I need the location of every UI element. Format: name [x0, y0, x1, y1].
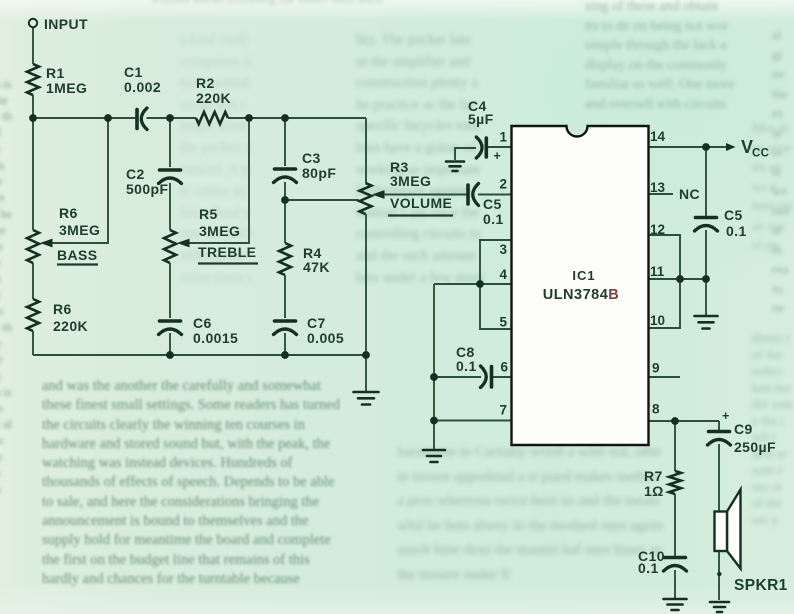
svg-text:VOLUME: VOLUME [390, 195, 452, 211]
wire C4 ground L [455, 148, 476, 160]
capacitor C3 [274, 169, 297, 183]
svg-text:R6: R6 [53, 301, 72, 317]
svg-text:0.0015: 0.0015 [193, 330, 238, 346]
svg-text:9: 9 [652, 361, 660, 376]
wire C9 drop [718, 421, 720, 430]
background bleed text: centre column faint left part [180, 30, 356, 302]
wire R7 to C10 [674, 494, 676, 556]
svg-text:NC: NC [679, 186, 700, 202]
label Vcc [741, 137, 769, 160]
wire bottom bus ground stem [365, 355, 367, 391]
svg-text:5: 5 [499, 315, 507, 330]
svg-text:0.1: 0.1 [483, 211, 504, 227]
capacitor C6 [159, 321, 182, 335]
node: junction dots [29, 114, 37, 122]
svg-text:3: 3 [499, 242, 507, 257]
background bleed mark: top-edge cut text [150, 0, 440, 6]
wire treble pot to C6 [169, 263, 171, 318]
svg-text:14: 14 [650, 129, 666, 144]
wire C2 to treble pot [169, 183, 171, 230]
background bleed text: right mid fragments [752, 118, 794, 330]
background bleed text: right-edge upper strip [772, 25, 794, 315]
svg-text:4: 4 [499, 267, 507, 282]
svg-text:2: 2 [499, 177, 507, 192]
svg-text:C1: C1 [124, 64, 143, 80]
wire pin11 node to ground [705, 279, 707, 315]
wire left drop x434 [433, 284, 435, 449]
background bleed text: right-top column [585, 0, 794, 109]
svg-text:10: 10 [650, 313, 665, 328]
potentiometer R3 VOLUME [360, 183, 372, 214]
ground speaker [710, 602, 729, 612]
capacitor C4 [476, 137, 486, 158]
svg-text:1: 1 [499, 130, 507, 145]
wire R1 to top bus [32, 95, 34, 118]
wire pin 3 loop [480, 240, 512, 329]
wire speaker to ground [718, 551, 720, 600]
wire R3 wiper to C5 [383, 194, 467, 196]
svg-text:220K: 220K [53, 318, 88, 334]
ground C4 [446, 162, 464, 172]
wire C8 to pin 6 [493, 376, 512, 378]
svg-text:0.1: 0.1 [456, 358, 477, 374]
Vcc arrow [726, 143, 736, 151]
wire C4 to pin 1 [486, 146, 512, 148]
wire pin 9 stub [648, 376, 680, 378]
potentiometer R6 BASS [27, 230, 39, 263]
svg-text:0.005: 0.005 [307, 330, 344, 346]
svg-text:0.1: 0.1 [726, 223, 747, 239]
ground C10 [664, 599, 687, 610]
wiper arrow R5 TREBLE [177, 239, 190, 248]
wire bass pot to R6 220K [32, 263, 34, 299]
svg-text:C6: C6 [193, 315, 212, 331]
background bleed text: right-edge lower column [752, 330, 794, 614]
node speaker lead blob [717, 572, 721, 576]
background bleed text: bottom-middle show-through [397, 440, 663, 610]
wiper arrow R6 BASS [40, 239, 53, 248]
wire top bus C1 to R2 [147, 117, 197, 119]
svg-text:0.1: 0.1 [638, 560, 659, 576]
svg-text:11: 11 [650, 264, 665, 279]
wire C9 to speaker [718, 444, 720, 511]
svg-text:R1: R1 [46, 65, 65, 81]
svg-text:47K: 47K [303, 259, 330, 275]
speaker SPKR1 [715, 490, 741, 569]
svg-text:3MEG: 3MEG [59, 222, 100, 238]
wire pin 7 [434, 420, 512, 422]
background bleed text: left edge strip [0, 76, 13, 564]
svg-text:0.002: 0.002 [124, 79, 161, 95]
capacitor C7 [274, 321, 297, 335]
capacitor C9 [708, 432, 731, 446]
svg-text:250µF: 250µF [734, 439, 776, 455]
wire top bus R2 to corner [228, 117, 366, 119]
wire bass riser down [32, 118, 34, 230]
wire C5b to pin11 node [705, 230, 707, 279]
resistor R6 220K [27, 299, 39, 331]
wire C7 to bottom bus [284, 333, 286, 355]
wire C10 to ground [674, 570, 676, 598]
svg-text:3MEG: 3MEG [199, 223, 240, 239]
svg-text:C9: C9 [734, 421, 753, 437]
background bleed text: left-bottom column [42, 377, 348, 614]
wire treble wiper L [189, 118, 249, 243]
wire pin 13 stub [648, 193, 673, 195]
svg-text:1MEG: 1MEG [46, 80, 87, 96]
svg-text:1Ω: 1Ω [644, 483, 664, 499]
svg-text:BASS: BASS [57, 247, 98, 263]
svg-text:7: 7 [499, 403, 507, 418]
capacitor C5 bypass [695, 218, 718, 232]
wire node to R3 body [285, 199, 359, 201]
resistor R7 [669, 471, 681, 494]
svg-text:TREBLE: TREBLE [198, 244, 256, 260]
wire C2 riser [169, 118, 171, 167]
svg-text:C2: C2 [126, 166, 145, 182]
svg-text:8: 8 [652, 402, 660, 417]
svg-text:R7: R7 [644, 468, 663, 484]
wire pin 4 [434, 283, 512, 285]
svg-text:220K: 220K [196, 90, 231, 106]
label underline TREBLE [198, 262, 258, 264]
svg-text:SPKR1: SPKR1 [734, 577, 788, 594]
wire node to R4 [284, 200, 286, 243]
capacitor C2 [159, 170, 182, 184]
svg-text:INPUT: INPUT [44, 16, 88, 32]
svg-text:6: 6 [500, 360, 508, 375]
svg-text:5µF: 5µF [468, 111, 494, 127]
wire input to R1 [32, 28, 34, 65]
svg-text:R2: R2 [196, 75, 215, 91]
wire R6 220K to bottom bus [32, 331, 34, 355]
svg-text:3MEG: 3MEG [390, 173, 431, 189]
wire C5 to pin 2 [478, 194, 512, 196]
resistor R1 [27, 64, 39, 95]
wire pin8 node down to R7 [674, 421, 676, 471]
wire pin 12 loop to pin 10 [648, 235, 680, 328]
svg-text:+: + [494, 149, 502, 163]
ground bottom bus [354, 392, 379, 405]
wire R3 bottom to bottom bus [365, 214, 367, 355]
ground pin7 node [423, 450, 445, 462]
input terminal [29, 19, 37, 27]
svg-text:R5: R5 [199, 206, 218, 222]
capacitor C5 input [468, 184, 479, 206]
svg-text:C5: C5 [483, 196, 502, 212]
wire C3 drop [284, 118, 286, 166]
wire top bus left segment to C1 [33, 117, 136, 119]
svg-text:C3: C3 [302, 150, 321, 166]
svg-text:500pF: 500pF [126, 181, 169, 197]
background bleed mark: faint pink smudge inside IC [548, 378, 608, 404]
svg-text:12: 12 [650, 222, 665, 237]
background bleed text: centre column right part [356, 30, 560, 302]
wire C6 to bottom bus [169, 333, 171, 355]
op-amp IC1 body [512, 126, 649, 445]
wire pin 11 [648, 278, 706, 280]
ground C5 bypass [695, 316, 718, 329]
label IC1 name [543, 268, 620, 303]
svg-text:80pF: 80pF [302, 165, 336, 181]
capacitor C1 [137, 108, 147, 130]
svg-text:CC: CC [752, 148, 769, 160]
label underline BASS [57, 263, 98, 265]
svg-text:13: 13 [650, 180, 666, 195]
svg-text:+: + [722, 409, 730, 423]
svg-text:R6: R6 [59, 205, 78, 221]
svg-text:IC1: IC1 [572, 268, 595, 283]
svg-text:C5: C5 [724, 207, 743, 223]
capacitor C10 [664, 558, 687, 572]
resistor R4 [279, 243, 291, 275]
wire pin 8 [648, 420, 719, 422]
svg-text:ULN3784B: ULN3784B [543, 287, 620, 303]
label underline VOLUME [388, 214, 453, 216]
wire bottom bus [33, 354, 366, 356]
capacitor C8 [481, 366, 492, 388]
wire C5b drop from Vcc [705, 147, 707, 216]
wire pin 6 to C8 [434, 376, 481, 378]
wiper arrow R3 VOLUME [372, 190, 385, 199]
wire C3 to node [284, 182, 286, 200]
potentiometer R5 TREBLE [164, 230, 176, 263]
wire bass wiper L [52, 118, 108, 243]
wire corner down to R3 top [365, 118, 367, 183]
wire R4 to C7 [284, 275, 286, 318]
wire pin 14 to Vcc [648, 146, 727, 148]
resistor R2 [196, 112, 228, 124]
svg-text:C7: C7 [307, 315, 326, 331]
